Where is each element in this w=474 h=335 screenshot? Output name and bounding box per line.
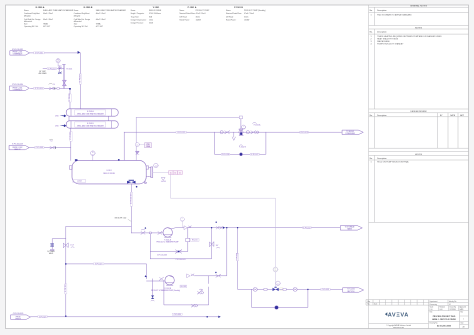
svg-text:Name:: Name: <box>180 10 186 12</box>
svg-text:40m2 / 45m2: 40m2 / 45m2 <box>43 13 53 15</box>
svg-text:1501: 1501 <box>155 166 158 168</box>
svg-text:01: 01 <box>449 304 451 306</box>
svg-text:8"-PO-1021: 8"-PO-1021 <box>95 264 103 266</box>
instrument PI-1503 above discharge <box>180 217 184 228</box>
wire pump A recycle drop <box>150 228 211 259</box>
junction dot letdown right <box>307 289 308 290</box>
junction dot suction header tee <box>65 263 67 265</box>
pump B check valve <box>187 274 194 278</box>
svg-text:4"-PO-1020: 4"-PO-1020 <box>174 314 182 316</box>
wire signal LC run <box>171 174 276 287</box>
svg-text:8"-PO-1008: 8"-PO-1008 <box>36 147 44 149</box>
wire drum bottom outlet <box>130 184 132 233</box>
line label drum outlet vertical <box>130 192 132 206</box>
vapour header block valves <box>220 131 229 134</box>
svg-text:CWS: CWS <box>55 116 59 118</box>
letdown control valve LV-1501b <box>273 287 283 291</box>
svg-text:PRODUCT PUMP: PRODUCT PUMP <box>196 10 211 12</box>
drain valve below FV <box>39 69 62 75</box>
svg-text:P-1501 A: P-1501 A <box>188 6 197 9</box>
restriction orifice RO-B label <box>180 285 187 288</box>
line label drains mid <box>172 313 182 316</box>
pump A check valve <box>184 226 191 230</box>
label recycle line A <box>175 259 185 261</box>
svg-text:132kW: 132kW <box>196 20 202 22</box>
svg-text:HOLD ON PUMP SELECTION FINAL: HOLD ON PUMP SELECTION FINAL <box>377 161 409 164</box>
pump P-1501C inline (running) <box>239 145 246 156</box>
svg-text:1 1/2": 1 1/2" <box>70 245 74 247</box>
svg-text:01: 01 <box>179 172 181 174</box>
line label letdown <box>321 288 331 291</box>
svg-text:differential:: differential: <box>24 20 33 23</box>
svg-text:12"-PO-1010: 12"-PO-1010 <box>69 93 71 101</box>
svg-text:TO E-1503: TO E-1503 <box>346 131 353 133</box>
wire pump A suction vertical stub <box>149 233 151 259</box>
svg-text:Height / Tangents:: Height / Tangents: <box>131 12 145 15</box>
svg-text:V-1501: V-1501 <box>153 7 160 9</box>
svg-text:FROM C-1501: FROM C-1501 <box>13 87 23 89</box>
wire pump A discharge <box>171 228 340 229</box>
svg-text:4: 4 <box>371 44 372 46</box>
svg-text:1501: 1501 <box>136 145 139 147</box>
wire riser x80 to E-1509A <box>79 53 81 109</box>
junction corner arrow top <box>78 51 80 54</box>
wire E-feed drop x70 <box>69 88 71 108</box>
instrument LT bubble <box>154 163 158 168</box>
line label letdown drop vertical <box>237 253 239 261</box>
junction dot letdown tee <box>237 227 238 228</box>
svg-text:14"-PO-1015: 14"-PO-1015 <box>177 132 185 134</box>
heat exchanger E-1509B <box>66 121 118 128</box>
svg-text:Name:: Name: <box>131 10 137 12</box>
svg-text:Description: Description <box>377 157 386 160</box>
junction dot discharge B tee <box>226 227 227 228</box>
svg-text:PROCESS PROJECT P&ID: PROCESS PROJECT P&ID <box>433 316 456 318</box>
svg-text:FV-1501: FV-1501 <box>67 68 73 70</box>
svg-text:2"-PO-1014: 2"-PO-1014 <box>48 68 56 70</box>
control valve FV-1501 <box>58 66 72 70</box>
svg-text:1: 1 <box>371 162 372 164</box>
svg-text:1: 1 <box>371 14 372 16</box>
svg-text:310m: 310m <box>196 16 201 18</box>
svg-text:Nominal Rated Flow:: Nominal Rated Flow: <box>226 12 242 15</box>
drum vent stub right <box>144 182 147 184</box>
wire drum vapour outlet riser x124.2 <box>123 132 125 160</box>
discharge header valves <box>216 222 223 230</box>
svg-text:Operating Wt / Vol:: Operating Wt / Vol: <box>74 25 89 28</box>
drain valve 3/4 <box>47 244 54 256</box>
off-page connector OUT-1 <box>342 130 363 135</box>
svg-text:DATE: DATE <box>450 114 456 117</box>
svg-text:SYSTEM: SYSTEM <box>450 309 457 311</box>
svg-text:DESIGN REVIEW: DESIGN REVIEW <box>410 111 426 113</box>
line label E outlet vertical <box>70 132 72 142</box>
wire compressor bypass loop <box>215 132 266 154</box>
svg-text:1501: 1501 <box>277 284 280 286</box>
svg-text:CWS: CWS <box>55 125 59 127</box>
svg-text:E-1509 A: E-1509 A <box>36 6 45 9</box>
svg-text:Diff Head:: Diff Head: <box>180 16 188 18</box>
svg-text:No.: No. <box>370 32 373 34</box>
svg-text:8"-PO-150-1008: 8"-PO-150-1008 <box>12 144 23 146</box>
pump P-1501B <box>151 276 180 293</box>
svg-text:HOLDS: HOLDS <box>415 154 423 156</box>
valve on suction downcomer <box>63 243 74 247</box>
equipment table E-1509A <box>24 6 74 28</box>
line label drains near flag <box>38 316 47 319</box>
equipment table V-1501 <box>131 7 162 25</box>
inline pump P-1502A <box>239 123 261 136</box>
svg-text:L-1504: L-1504 <box>77 181 82 183</box>
svg-text:12"-PO-1010: 12"-PO-1010 <box>35 88 43 90</box>
svg-text:Name:: Name: <box>226 10 232 12</box>
line label riser x80 vertical <box>79 74 81 84</box>
svg-text:Diff Head:: Diff Head: <box>226 16 234 18</box>
junction arrow drains end <box>218 316 220 318</box>
valve on inlet-2 <box>49 83 60 89</box>
valve on inlet-3 <box>49 139 55 149</box>
line label inlet-1 <box>34 52 44 55</box>
svg-text:40m2 / 45m2: 40m2 / 45m2 <box>96 13 106 15</box>
svg-text:(Weight):: (Weight): <box>24 14 31 17</box>
svg-text:Nominal Rated Flow:: Nominal Rated Flow: <box>180 12 196 15</box>
svg-text:Rated Power:: Rated Power: <box>180 19 191 22</box>
svg-text:FROM C-1501: FROM C-1501 <box>13 51 23 53</box>
wire vent branch vertical x63.9 double line <box>62 65 64 89</box>
svg-text:Trays Size:: Trays Size: <box>131 15 140 18</box>
svg-text:RO-1501: RO-1501 <box>192 240 198 242</box>
fitting at riser top <box>239 116 242 119</box>
svg-text:(Weight):: (Weight): <box>74 14 81 17</box>
interlock LC boxes <box>153 171 183 175</box>
wire pump A suction <box>131 232 163 234</box>
wire E-1509A outlet right to pump header <box>136 117 241 119</box>
wire drains header y316.8 <box>30 316 220 318</box>
svg-text:E-1509 B: E-1509 B <box>87 123 94 125</box>
drum V-1501 <box>69 160 146 184</box>
svg-text:4"-PO-150-1020: 4"-PO-150-1020 <box>13 313 24 315</box>
line label bypass right <box>250 153 259 156</box>
svg-text:10"-PO-1012: 10"-PO-1012 <box>35 53 43 55</box>
line label downcomer vertical <box>65 284 67 294</box>
pump B discharge valve <box>215 272 220 277</box>
svg-text:44m2 / 46m2: 44m2 / 46m2 <box>96 19 106 21</box>
junction dot drum nozzle x76 <box>75 159 78 161</box>
line label bypass left <box>221 153 229 156</box>
note MIN SLOPE <box>115 218 132 222</box>
junction arrow header left <box>223 227 225 229</box>
svg-text:1501: 1501 <box>274 270 277 272</box>
svg-text:4"-PO-1020: 4"-PO-1020 <box>39 317 47 319</box>
heat exchanger E-1509A <box>66 109 118 116</box>
spectacle blind on riser <box>63 80 67 86</box>
wire suction downcomer x65.8 <box>65 227 67 317</box>
line label to OUT-1 <box>300 131 309 134</box>
pump B suction valve <box>145 275 164 280</box>
recycle globe valve A <box>157 250 182 257</box>
svg-text:FROM C-1502: FROM C-1502 <box>13 147 23 149</box>
svg-text:AV-01-2013-0000: AV-01-2013-0000 <box>437 325 451 328</box>
wire inlet-1 horizontal <box>30 52 81 54</box>
svg-text:T-4: T-4 <box>53 84 55 86</box>
svg-text:14"-PO-1015: 14"-PO-1015 <box>300 132 308 134</box>
off-page connector OUT-3 <box>343 288 364 293</box>
svg-text:6"-PO-1024: 6"-PO-1024 <box>237 253 239 261</box>
off-page connector IN-4 <box>11 313 31 320</box>
svg-text:12"-PO-150-1010: 12"-PO-150-1010 <box>12 84 23 86</box>
svg-text:P-1502 B: P-1502 B <box>239 146 246 148</box>
wire E-1509 interconnect left <box>68 116 70 121</box>
svg-text:3700 / 9000mm: 3700 / 9000mm <box>149 13 161 15</box>
wire letdown line y289.4 <box>252 288 343 290</box>
svg-text:P&ID IS DRAWN TO AVEVA STANDAR: P&ID IS DRAWN TO AVEVA STANDARD <box>377 13 412 16</box>
svg-text:Description: Description <box>377 9 386 12</box>
svg-text:T-3: T-3 <box>50 140 52 142</box>
wire inlet-2 horizontal <box>30 87 70 89</box>
off-page connector IN-3 <box>9 144 29 151</box>
wire pump riser x240.9 <box>240 118 242 133</box>
equipment table P-1501B <box>226 7 266 22</box>
svg-text:PUMPS RUN DUTY STANDBY: PUMPS RUN DUTY STANDBY <box>377 43 404 46</box>
wire pump A recycle via RO <box>150 228 188 252</box>
svg-text:47m3 / 55m3: 47m3 / 55m3 <box>244 13 254 15</box>
strainer under header <box>232 132 235 140</box>
level control valve LV-1501 on drum bottom <box>127 180 137 188</box>
svg-text:MIN SLOPE 1:100: MIN SLOPE 1:100 <box>115 218 127 220</box>
svg-text:Rev: Rev <box>461 312 464 314</box>
letdown station block valve left <box>253 287 267 291</box>
wire vapour header y132.2 to OUT-1 <box>124 131 341 133</box>
wire pump suction header y263.9 <box>66 264 147 279</box>
svg-text:differential:: differential: <box>74 20 83 23</box>
svg-text:310m: 310m <box>244 16 249 18</box>
recycle valve pair lower <box>192 304 198 307</box>
svg-text:P-1501 B: P-1501 B <box>164 288 171 290</box>
line label inlet-2 <box>34 87 44 90</box>
svg-text:10"-PO-1012: 10"-PO-1012 <box>79 74 81 82</box>
svg-text:44m2 / 46m2: 44m2 / 46m2 <box>43 19 53 21</box>
junction dot drum nozzle x118.8 <box>118 159 120 161</box>
line label discharge header <box>303 227 312 230</box>
line label control station <box>47 68 57 71</box>
level gauge on drum right <box>146 166 153 178</box>
line label vapour header <box>176 131 186 134</box>
wire E-1509 interconnect right <box>107 116 109 121</box>
svg-text:FROM: FROM <box>16 316 21 318</box>
wire gas line to drum <box>135 118 137 161</box>
svg-text:No.: No. <box>370 158 373 160</box>
instrument PI-1501 on drum top <box>91 151 96 161</box>
junction dot drains <box>206 316 208 318</box>
svg-text:LY: LY <box>275 269 277 271</box>
svg-text:8"-PO-1022: 8"-PO-1022 <box>303 227 311 229</box>
recycle valve pair upper <box>198 289 204 294</box>
svg-text:REFLUX DRUM: REFLUX DRUM <box>149 10 162 12</box>
off-page connector OUT-2 <box>341 226 363 231</box>
svg-text:No.: No. <box>370 10 373 12</box>
svg-text:Design Pressure:: Design Pressure: <box>131 22 144 25</box>
svg-text:TO C-1501: TO C-1501 <box>347 289 355 291</box>
svg-text:Description: Description <box>377 31 386 34</box>
svg-text:SHELL AND TUBE HEAT EXCHANGER: SHELL AND TUBE HEAT EXCHANGER <box>96 9 127 12</box>
svg-text:www.aveva.com: www.aveva.com <box>393 327 405 329</box>
wire letdown bypass <box>252 289 308 307</box>
wire control station horizontal y68.7 <box>43 68 64 70</box>
svg-text:6"-PO-1017: 6"-PO-1017 <box>251 154 259 156</box>
svg-text:6"-PO-1016: 6"-PO-1016 <box>222 154 230 156</box>
svg-text:47m3 / 55m3: 47m3 / 55m3 <box>196 13 206 15</box>
svg-text:Scale: Scale <box>430 307 434 309</box>
svg-text:REFLUX DRUM: REFLUX DRUM <box>103 173 115 175</box>
svg-text:V-1501: V-1501 <box>106 170 111 172</box>
svg-text:Rated Power:: Rated Power: <box>226 19 237 22</box>
bypass globe valve dark <box>275 306 279 310</box>
junction dot bottom of downcomer <box>65 315 66 316</box>
AVEVA logo <box>385 312 408 318</box>
restriction orifice RO-A <box>186 238 199 241</box>
svg-text:Operating Wt / Vol:: Operating Wt / Vol: <box>24 25 39 28</box>
equipment table E-1509B <box>74 7 127 28</box>
svg-text:1:50: 1:50 <box>430 309 433 311</box>
svg-text:10"-PO-150-1012: 10"-PO-150-1012 <box>12 49 23 51</box>
pump A suction valve 2 <box>158 232 162 235</box>
wire pump B recycle <box>164 281 209 305</box>
svg-text:15: 15 <box>174 172 176 174</box>
svg-text:RECYCLE: RECYCLE <box>347 291 354 293</box>
wire pump B suction <box>147 280 165 282</box>
svg-text:2"-PO-150-1018: 2"-PO-150-1018 <box>157 255 167 257</box>
wire pump B discharge riser <box>195 228 227 276</box>
line label suction header <box>94 263 104 266</box>
svg-text:10"-PO-150-1011: 10"-PO-150-1011 <box>130 193 132 204</box>
pump B casing drain valve <box>151 279 154 301</box>
valve on recycle drop A <box>210 242 220 248</box>
wire bottoms run left y226.6 <box>66 226 132 228</box>
off-page connector IN-1 <box>10 49 29 56</box>
svg-text:No.: No. <box>370 115 373 117</box>
svg-text:Description: Description <box>377 114 386 117</box>
wire inlet-3 horizontal <box>30 147 71 149</box>
svg-text:Design Temperature:: Design Temperature: <box>131 19 147 22</box>
instrument LG below <box>161 178 166 184</box>
svg-text:GENERAL NOTES: GENERAL NOTES <box>410 5 428 8</box>
pump A suction valve 1 <box>141 229 151 234</box>
svg-text:E-1509 B: E-1509 B <box>84 7 93 9</box>
svg-text:44T / 46T: 44T / 46T <box>96 26 103 28</box>
junction dot recycle A tee <box>211 227 212 228</box>
svg-text:LG-1501: LG-1501 <box>161 181 166 183</box>
junction dot inlet-2 corner <box>69 88 71 90</box>
letdown station block valve right <box>283 287 297 291</box>
exchanger CWS inlet arrow top <box>55 115 67 118</box>
line label inlet-3 <box>35 147 44 150</box>
wire E-1509B outlet to drum <box>70 128 72 160</box>
svg-text:Name:: Name: <box>24 10 30 12</box>
pump P-1501A <box>156 228 178 244</box>
wire drain stub <box>52 239 66 250</box>
svg-text:Size: Size <box>461 322 464 324</box>
svg-text:CONDENSER: CONDENSER <box>345 133 356 135</box>
svg-text:12"-PO-1010: 12"-PO-1010 <box>70 132 72 140</box>
svg-text:REFLUX: REFLUX <box>15 149 21 151</box>
svg-text:P-1501 B: P-1501 B <box>234 7 243 9</box>
svg-text:Name:: Name: <box>74 10 80 12</box>
svg-text:10"-PO-1011: 10"-PO-1011 <box>65 284 67 292</box>
instrument FIC-1501 <box>56 59 60 66</box>
header valves right of pump <box>246 131 258 134</box>
wire letdown drop x237.6 <box>238 228 252 290</box>
svg-text:6"-PO-1024: 6"-PO-1024 <box>322 289 330 291</box>
exchanger CWS inlet arrow bottom <box>55 124 67 127</box>
line label E-feed drop vertical <box>69 93 71 102</box>
svg-text:3/4" VENT: 3/4" VENT <box>39 71 46 73</box>
wire pump B recycle upper <box>208 276 210 284</box>
svg-text:Rev: Rev <box>368 301 371 303</box>
svg-text:0.00: 0.00 <box>440 309 443 311</box>
svg-text:AVΞVA: AVΞVA <box>388 313 409 319</box>
svg-text:132kW: 132kW <box>244 20 250 22</box>
svg-text:2"-PO-150-1019: 2"-PO-150-1019 <box>175 259 185 261</box>
off-page connector IN-2 <box>10 84 30 91</box>
equipment table P-1501A <box>180 6 211 22</box>
junction dot above suction <box>145 227 146 228</box>
svg-text:44T / 46T: 44T / 46T <box>43 26 50 28</box>
svg-text:AREA 1 - RECYCLE CRUDE: AREA 1 - RECYCLE CRUDE <box>432 318 456 321</box>
svg-text:PRODUCT PUMP (Standby): PRODUCT PUMP (Standby) <box>244 9 266 12</box>
svg-text:NOTES: NOTES <box>415 27 423 29</box>
svg-text:RO-1502: RO-1502 <box>181 286 187 288</box>
instrument LY positioner <box>273 267 280 286</box>
svg-text:1502: 1502 <box>242 128 245 130</box>
svg-text:3/4": 3/4" <box>216 245 219 247</box>
instrument PG-1501 on gas line <box>135 143 151 155</box>
svg-text:SHELL AND TUBE HEAT EXCHANGER: SHELL AND TUBE HEAT EXCHANGER <box>43 9 74 12</box>
